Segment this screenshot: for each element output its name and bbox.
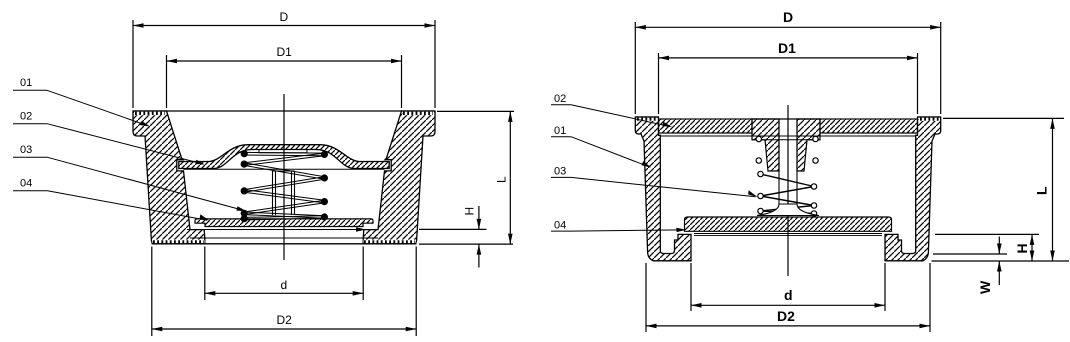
body 01 right wall (right figure) bbox=[885, 117, 941, 261]
svg-text:D: D bbox=[783, 9, 793, 25]
top flange serration right (right figure) bbox=[919, 118, 941, 121]
disc hub (right figure) bbox=[757, 204, 819, 216]
svg-text:01: 01 bbox=[554, 125, 566, 137]
top flange serration left bbox=[134, 112, 166, 116]
leader 01 bbox=[47, 90, 148, 126]
bottom face serration left bbox=[153, 240, 205, 244]
svg-text:D1: D1 bbox=[778, 40, 796, 56]
dimension L (right figure) bbox=[943, 117, 1064, 119]
bottom face serration right bbox=[364, 240, 416, 244]
dimension H (left figure) bbox=[419, 228, 487, 230]
body 01 left wall (right figure) bbox=[635, 117, 691, 261]
spring retainer inside dome bbox=[259, 150, 307, 153]
dimension D (right figure) bbox=[634, 22, 636, 114]
dimension D1 (left figure) bbox=[166, 55, 168, 108]
dimension D2 (right figure) bbox=[645, 263, 647, 332]
svg-text:L: L bbox=[1034, 186, 1050, 195]
dimension d (left figure) bbox=[204, 247, 206, 301]
centerline (left figure) bbox=[283, 94, 285, 260]
svg-text:02: 02 bbox=[554, 93, 566, 105]
top face line (right figure) bbox=[635, 116, 658, 118]
bottom recess edge line bbox=[190, 237, 378, 239]
gasket lines under plate bbox=[660, 135, 916, 137]
svg-text:03: 03 bbox=[20, 144, 32, 156]
svg-text:01: 01 bbox=[20, 77, 32, 89]
boss step line bbox=[752, 139, 820, 141]
spring 03 (left figure) coil wires bbox=[244, 152, 324, 220]
svg-text:04: 04 bbox=[20, 178, 32, 190]
svg-text:D1: D1 bbox=[277, 45, 293, 59]
dimension d (right figure) bbox=[690, 263, 692, 311]
leader 02 (right figure) bbox=[571, 105, 670, 127]
stem guide boss (right figure) bbox=[752, 119, 779, 171]
svg-text:d: d bbox=[784, 287, 793, 303]
inner bore edge line behind dome bbox=[184, 168, 385, 170]
top flange serration right bbox=[403, 112, 435, 116]
disc 04 (left figure) bbox=[195, 219, 373, 227]
bottom face line (left figure) bbox=[152, 243, 417, 245]
svg-text:L: L bbox=[495, 176, 509, 183]
dimension D2 (left figure) bbox=[151, 247, 153, 337]
spring 03 wire sections right column bbox=[321, 151, 328, 221]
leader 04 (right figure) bbox=[571, 230, 685, 231]
svg-text:D2: D2 bbox=[277, 313, 293, 327]
svg-text:D: D bbox=[280, 10, 289, 24]
svg-text:W: W bbox=[977, 280, 993, 294]
top face line (left figure) bbox=[133, 110, 435, 112]
body 01 left wall (left figure) bbox=[133, 111, 205, 244]
leader 04 bbox=[48, 191, 208, 220]
seat edge arrow bbox=[356, 227, 366, 231]
top flange serration left (right figure) bbox=[636, 118, 658, 121]
svg-text:H: H bbox=[1014, 243, 1030, 253]
seat lines under disc (right figure) bbox=[694, 233, 882, 235]
leader 03 (right figure) bbox=[571, 177, 756, 196]
svg-text:d: d bbox=[281, 278, 288, 292]
disc 04 (right figure) bbox=[685, 217, 892, 231]
stem guide (left figure) bbox=[273, 171, 295, 215]
spring 03 wire sections left column bbox=[241, 150, 248, 222]
seat edge line under disc bbox=[187, 229, 363, 231]
stem (right figure) bbox=[778, 119, 780, 205]
top plate 02 (right figure) bbox=[659, 119, 753, 133]
svg-text:04: 04 bbox=[554, 220, 566, 232]
dimension L (left figure) bbox=[437, 110, 514, 112]
svg-text:D2: D2 bbox=[777, 308, 795, 324]
leader 02 bbox=[48, 124, 204, 164]
leader 03 bbox=[48, 157, 245, 210]
centerline (right figure) bbox=[787, 105, 789, 276]
dimension W (right figure) bbox=[933, 253, 1007, 255]
dimension D (left figure) bbox=[132, 20, 134, 108]
spring 03 (right figure) bbox=[761, 174, 815, 214]
dimension H (right figure) bbox=[935, 233, 1039, 235]
svg-text:02: 02 bbox=[20, 111, 32, 123]
dimension D1 (right figure) bbox=[658, 53, 660, 114]
body 01 right wall (left figure) bbox=[363, 111, 435, 244]
leader 01 (right figure) bbox=[571, 137, 649, 167]
seat plate / cover 02 (left figure) bbox=[179, 145, 389, 169]
svg-text:H: H bbox=[463, 207, 477, 216]
svg-text:03: 03 bbox=[554, 166, 566, 178]
